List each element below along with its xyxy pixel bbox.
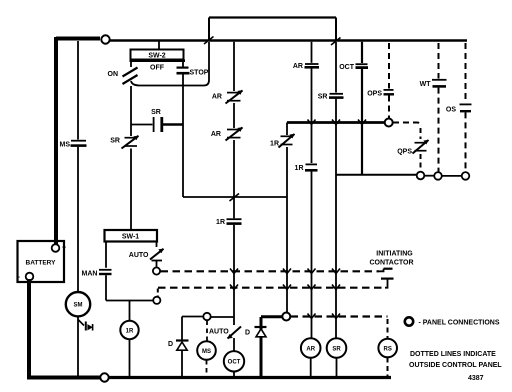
svg-text:MS: MS — [60, 142, 71, 149]
svg-text:4387: 4387 — [468, 375, 484, 382]
svg-text:SR: SR — [151, 109, 161, 116]
svg-text:SW-1: SW-1 — [122, 234, 139, 241]
svg-text:AR: AR — [306, 347, 315, 353]
svg-text:AR: AR — [211, 131, 221, 138]
svg-text:OS: OS — [446, 107, 456, 114]
svg-text:1R: 1R — [216, 219, 225, 226]
svg-text:OCT: OCT — [339, 64, 355, 71]
svg-text:OPS: OPS — [367, 91, 382, 98]
svg-text:OUTSIDE CONTROL PANEL: OUTSIDE CONTROL PANEL — [409, 362, 502, 369]
svg-text:D: D — [168, 341, 173, 348]
svg-text:STOP: STOP — [190, 70, 209, 77]
svg-text:+: + — [62, 245, 66, 252]
svg-text:QPS: QPS — [397, 149, 412, 156]
svg-text:BATTERY: BATTERY — [26, 260, 57, 267]
svg-text:1R: 1R — [295, 165, 304, 172]
svg-text:SR: SR — [332, 347, 341, 353]
svg-text:ON: ON — [108, 71, 119, 78]
svg-text:SR: SR — [318, 94, 328, 101]
svg-text:INITIATING: INITIATING — [376, 251, 413, 258]
svg-text:1R: 1R — [270, 141, 279, 148]
svg-text:AR: AR — [212, 94, 222, 101]
svg-text:CONTACTOR: CONTACTOR — [369, 260, 413, 267]
svg-text:AR: AR — [293, 63, 303, 70]
svg-text:DOTTED LINES INDICATE: DOTTED LINES INDICATE — [410, 351, 496, 358]
svg-text:OCT: OCT — [228, 360, 241, 366]
svg-text:1R: 1R — [126, 329, 134, 335]
svg-text:SR: SR — [110, 138, 120, 145]
svg-text:MAN: MAN — [82, 271, 98, 278]
svg-text:SM: SM — [74, 303, 83, 309]
svg-text:OFF: OFF — [150, 65, 165, 72]
svg-text:AUTO: AUTO — [209, 329, 229, 336]
svg-text:- PANEL CONNECTIONS: - PANEL CONNECTIONS — [419, 320, 500, 327]
svg-text:WT: WT — [420, 81, 432, 88]
svg-text:AUTO: AUTO — [129, 252, 149, 259]
svg-text:MS: MS — [202, 349, 211, 355]
svg-text:SW-2: SW-2 — [148, 53, 165, 60]
svg-text:RS: RS — [384, 347, 392, 353]
svg-text:D: D — [245, 330, 250, 337]
